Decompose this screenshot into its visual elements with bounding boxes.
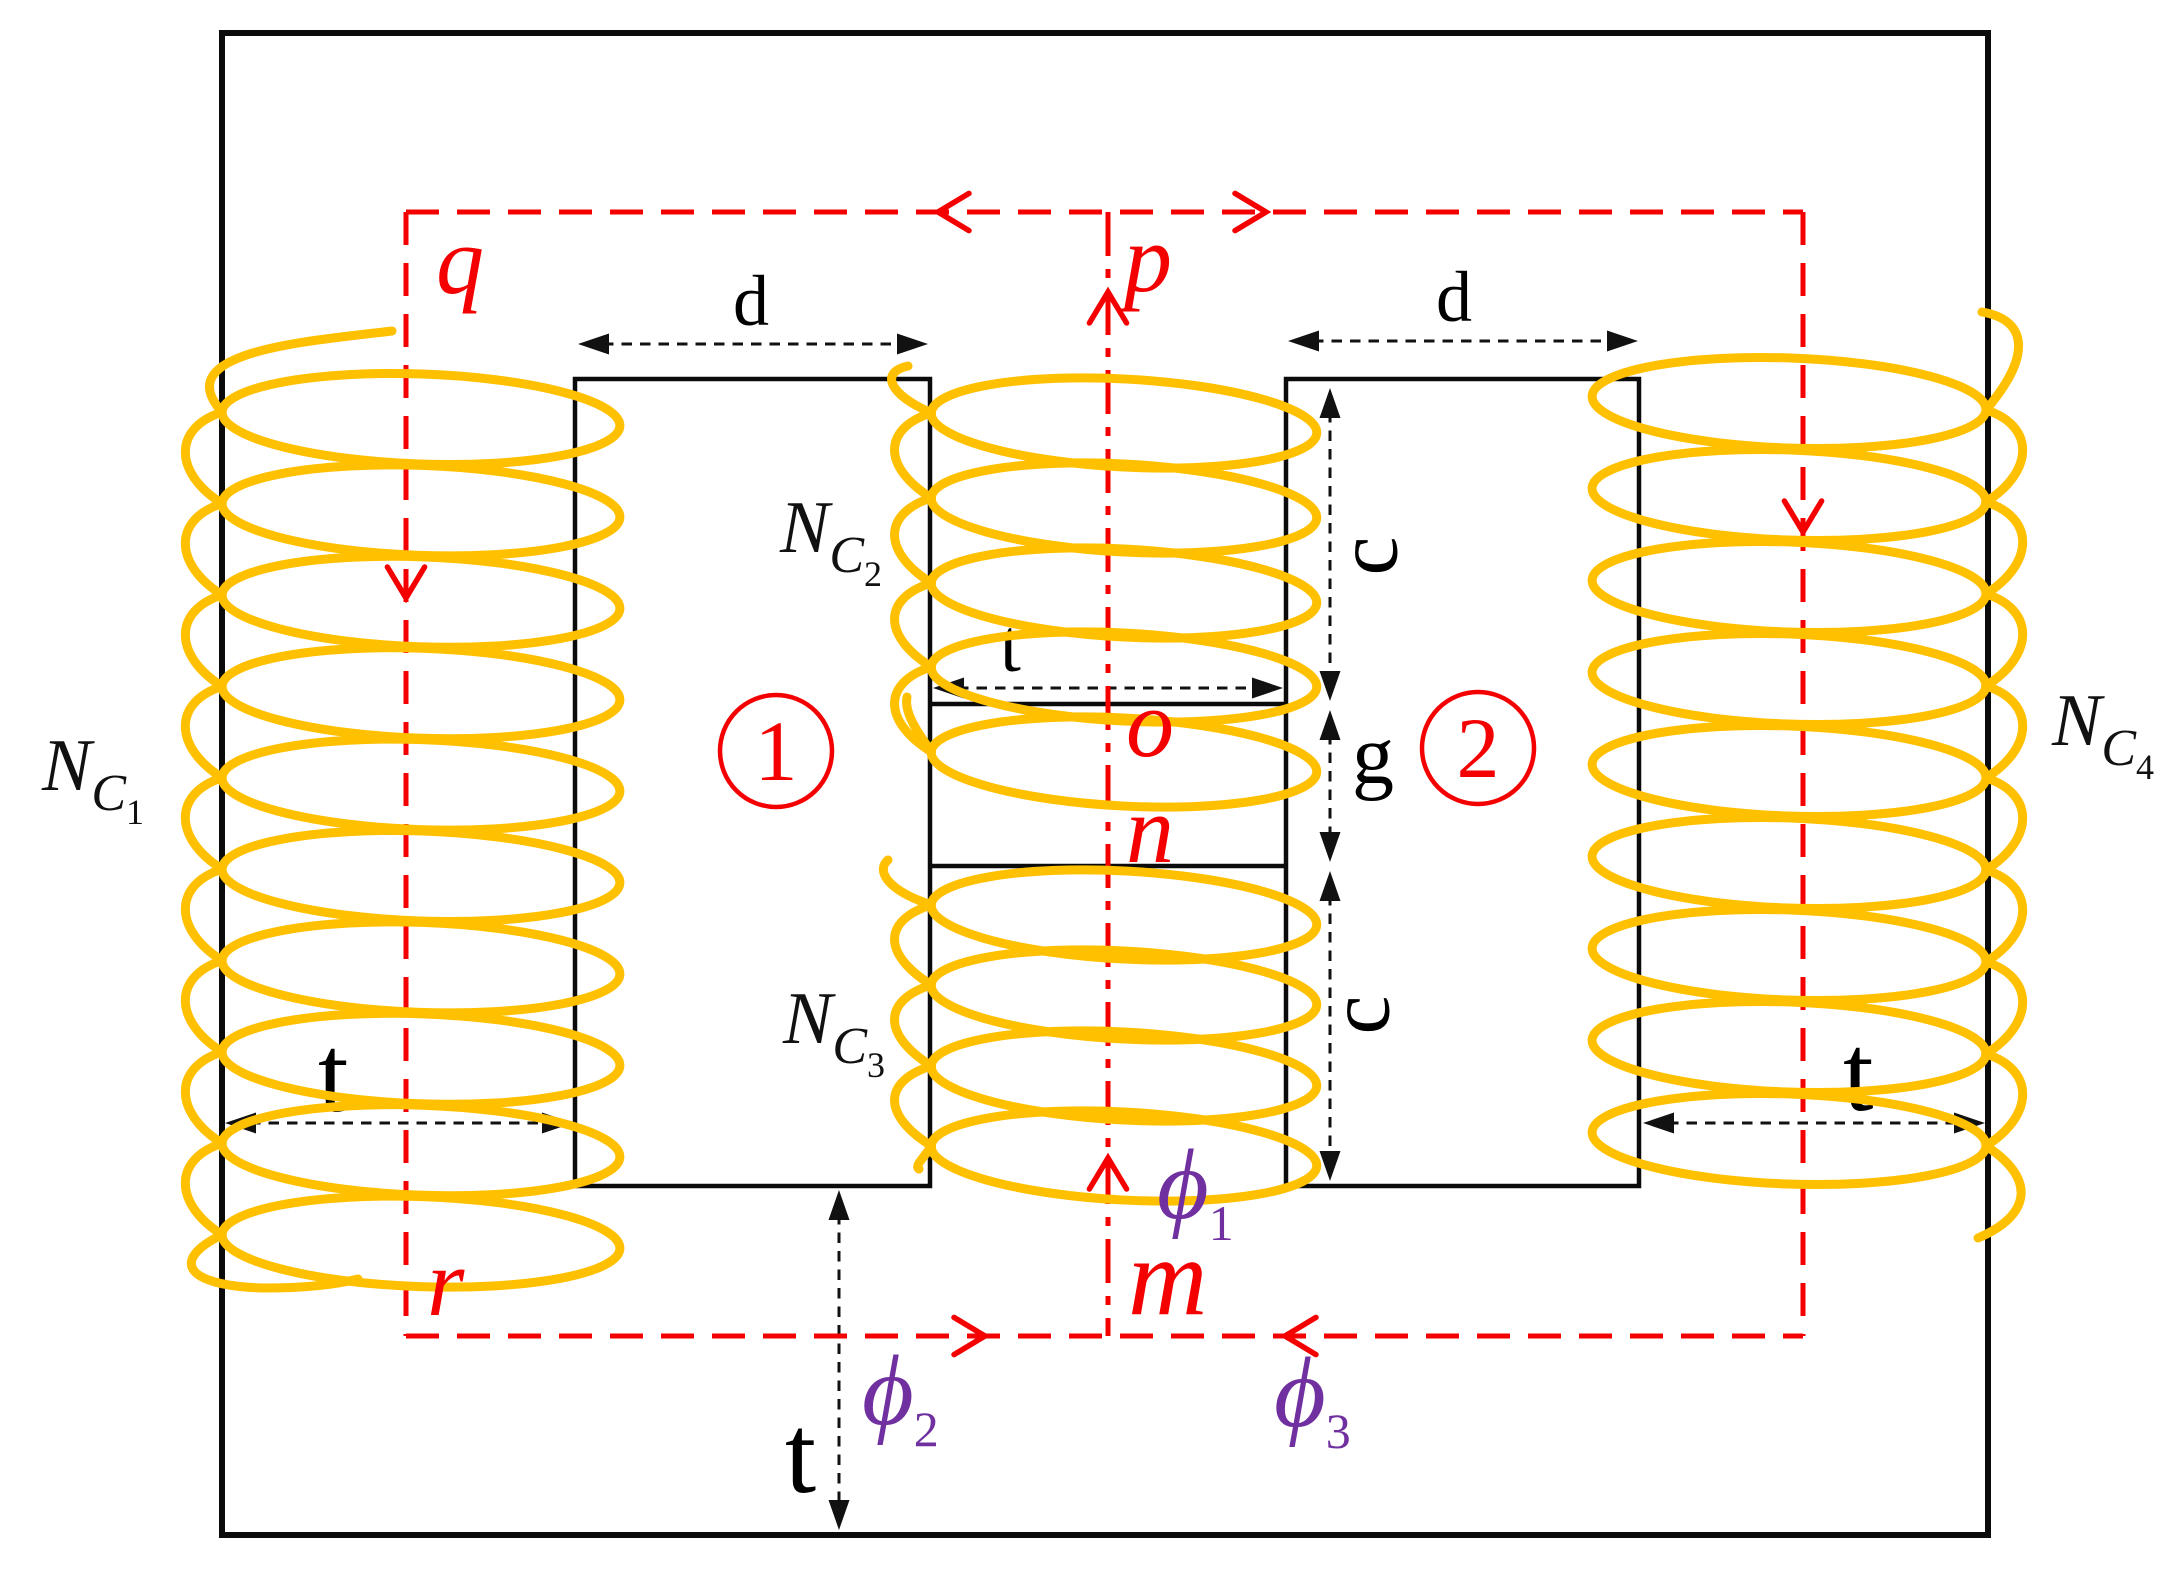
flux arrow center line up near phi1 [1089, 1158, 1126, 1189]
flux arrow bottom-right pointing left [1285, 1317, 1316, 1354]
svg-text:g: g [1352, 709, 1394, 802]
dimension c (upper center leg height) [1329, 412, 1332, 677]
svg-text:t: t [1843, 1012, 1874, 1134]
flux arrow top-left pointing left [938, 193, 969, 230]
svg-text:t: t [318, 1013, 349, 1135]
dimension c (lower center leg height) [1329, 895, 1332, 1157]
dimension t (center leg width, top) [958, 687, 1258, 690]
flux path loop 1 left side q-r [404, 212, 409, 1336]
svg-text:d: d [733, 261, 769, 341]
svg-text:o: o [1126, 670, 1174, 777]
flux arrow top-right pointing right [1235, 193, 1266, 230]
region number 1 circled [720, 695, 832, 807]
svg-text:d: d [1436, 257, 1472, 337]
svg-text:p: p [1118, 205, 1172, 312]
flux path loop 2 right side [1801, 212, 1806, 1336]
winding N_C2 (upper center leg coil) [929, 369, 1319, 477]
svg-text:c: c [1312, 995, 1409, 1034]
svg-text:q: q [436, 207, 484, 314]
dimension g (air gap) [1329, 734, 1332, 838]
center flux line p-o-n-m dash-dot [1106, 212, 1111, 1336]
dimension t (right leg width, bottom) [1668, 1122, 1960, 1125]
svg-text:t: t [785, 1393, 816, 1517]
svg-text:2: 2 [1457, 700, 1500, 796]
dimension d (left window width) [603, 343, 903, 346]
winding N_C4 (right leg coil) [1591, 351, 1988, 455]
flux arrow center line up near p [1089, 292, 1126, 323]
winding N_C1 (left leg coil) [221, 367, 622, 471]
winding N_C3 (lower center leg coil) [929, 861, 1319, 969]
dimension t (bottom yoke thickness) [838, 1214, 841, 1506]
window 2 opening [1286, 379, 1639, 1186]
center leg upper piece bottom edge [928, 702, 1288, 707]
dimension d (right window width) [1313, 340, 1613, 343]
svg-text:1: 1 [755, 703, 798, 799]
flux path loop top side (q to p region) [406, 210, 1803, 215]
region number 2 circled [1422, 692, 1534, 804]
svg-text:c: c [1320, 536, 1417, 575]
center leg lower piece top edge [928, 864, 1288, 869]
flux arrow right side pointing down [1784, 501, 1821, 532]
svg-text:n: n [1126, 776, 1174, 883]
window 1 opening [575, 379, 930, 1186]
svg-text:r: r [427, 1229, 465, 1336]
flux arrow bottom-left pointing right [954, 1317, 985, 1354]
core outer boundary [222, 33, 1988, 1535]
dimension t (left leg width, bottom) [250, 1122, 548, 1125]
flux path bottom side (r to m) [406, 1334, 1803, 1339]
flux arrow left side pointing down [387, 567, 424, 598]
